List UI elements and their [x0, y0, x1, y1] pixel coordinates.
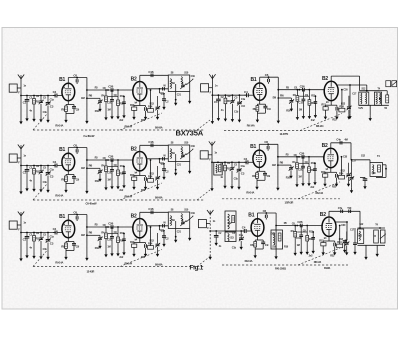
gang dashed line stage 5 — [222, 198, 340, 200]
tube B1 (stage 3) — [62, 220, 75, 237]
wire coupler to lead — [17, 224, 21, 226]
resistor R7 st4 — [296, 89, 299, 115]
wire coupling — [278, 89, 325, 91]
wire B1 anode — [260, 77, 279, 83]
screen network R6 st2 — [87, 168, 103, 176]
capacitor C6 st6 — [265, 213, 267, 220]
label aux3 st2 — [36, 165, 40, 168]
wire coupler to lead — [206, 223, 210, 225]
label aux13 st6 — [339, 238, 344, 241]
wire coupling — [276, 225, 323, 227]
label aux16 st4 — [221, 109, 224, 112]
label R6 — [89, 164, 93, 168]
tube B1 (stage 6) — [251, 219, 264, 236]
resistor R12 st5 — [323, 172, 328, 181]
label aux16 st5 — [220, 176, 223, 179]
label aux19 st6 — [309, 255, 314, 258]
ground C12 — [335, 114, 338, 119]
svg-text:1M: 1M — [299, 108, 302, 111]
label aux16 st1 — [29, 109, 32, 112]
wire cathode join — [257, 113, 265, 117]
label aux24 st1 — [191, 75, 196, 78]
node cpl-a — [275, 225, 277, 227]
label aux18 st3 — [95, 247, 100, 250]
tuning gang dashed line stage 1 — [33, 129, 205, 131]
svg-text:R9·14A: R9·14A — [55, 124, 63, 128]
capacitor C9 st6 — [261, 240, 265, 249]
wire B1 anode — [259, 144, 278, 150]
node cpl-a — [86, 226, 88, 228]
label aux17 st2 — [43, 181, 48, 184]
label aux9 st4 — [293, 94, 297, 97]
label R9 value — [55, 261, 63, 265]
wire antenna lead — [211, 78, 213, 119]
ground R6 — [290, 106, 293, 111]
svg-text:C4: C4 — [244, 157, 248, 161]
ground C2 — [230, 184, 233, 189]
svg-text:R9: R9 — [61, 107, 65, 111]
label R9 — [61, 244, 65, 248]
resistor R10 st5 — [308, 157, 311, 181]
coupler box st6 — [198, 220, 206, 228]
label aux12 st5 — [326, 168, 329, 171]
ground antenna — [19, 119, 22, 124]
label aux11 st2 — [120, 165, 125, 168]
wire B2 anode — [140, 212, 169, 220]
choke Z1 st6 — [358, 229, 364, 244]
capacitor C10 st5 — [301, 157, 305, 181]
label R6 — [280, 93, 284, 97]
ground HT — [274, 254, 277, 259]
label aux23 st3 — [184, 208, 189, 211]
core arrow st2 — [186, 149, 193, 155]
antenna — [209, 141, 215, 145]
label aux1 st6 — [213, 220, 216, 223]
node cpl-b — [299, 89, 301, 91]
label aux7 st5 — [286, 153, 290, 156]
ground C1 — [217, 116, 220, 121]
label R12 — [321, 170, 326, 174]
ground R6 — [98, 244, 101, 249]
wire grid bus — [21, 232, 56, 234]
label C4 — [242, 226, 246, 230]
node cpl-b — [107, 159, 109, 161]
svg-text:R9·14A: R9·14A — [55, 261, 63, 265]
label aux27 st3 — [155, 264, 163, 267]
ground R7 — [294, 251, 297, 256]
tuning gang C3 st3 — [46, 232, 51, 255]
label aux10 st3 — [114, 231, 118, 234]
label aux9 st2 — [101, 164, 105, 167]
label B1 — [248, 213, 254, 219]
label aux5 st1 — [50, 98, 55, 101]
label aux21 st6 — [297, 244, 300, 247]
ground C38 — [363, 184, 366, 189]
ground C11 — [312, 249, 315, 254]
svg-text:C3: C3 — [50, 242, 54, 246]
svg-text:C16: C16 — [148, 140, 153, 144]
svg-text:R9·14A: R9·14A — [247, 123, 255, 127]
label aux1 st4 — [215, 84, 218, 87]
wire R14 feed — [150, 159, 152, 179]
label R9 value — [247, 123, 255, 127]
ground sg — [348, 114, 351, 119]
ground HT — [85, 189, 88, 194]
resistor R1 st2 — [33, 165, 36, 187]
ground R12 — [132, 252, 135, 257]
label aux24 st6 — [341, 224, 346, 227]
svg-text:C10: C10 — [107, 171, 112, 175]
label aux25 st3 — [177, 231, 182, 234]
svg-text:C6: C6 — [263, 209, 267, 213]
ground box tap — [174, 100, 177, 105]
wire grid bus — [212, 161, 247, 163]
ground R10 — [116, 251, 119, 256]
node bus-left — [209, 230, 211, 232]
capacitor C26 st1 — [111, 88, 113, 92]
svg-text:R9·14A: R9·14A — [246, 190, 254, 194]
capacitor C26 st2 — [111, 158, 113, 162]
capacitor C10 st6 — [299, 226, 303, 250]
ground R10 — [307, 181, 310, 186]
tube B1 (stage 5) — [253, 150, 266, 167]
label C9 — [265, 243, 269, 247]
svg-text:B2: B2 — [131, 76, 137, 82]
svg-text:R9: R9 — [61, 244, 65, 248]
wire B1 cathode — [66, 170, 74, 174]
svg-text:C26: C26 — [299, 151, 304, 155]
label aux6 st6 — [252, 222, 255, 225]
label aux3 st5 — [227, 162, 231, 165]
gang diagonal b stage 3 — [120, 250, 162, 267]
ground network a — [364, 255, 367, 260]
resistor R12 st4 — [323, 105, 328, 114]
capacitor C1 st4 — [216, 94, 221, 115]
gang diagonal a stage 1 — [33, 114, 47, 130]
trimmer C14 st6 — [344, 232, 349, 251]
resistor R9 st6 — [254, 240, 257, 249]
label aux24 st2 — [191, 145, 196, 148]
label aux8 st1 — [103, 87, 107, 90]
wire sec down — [369, 105, 371, 115]
label aux0 st3 — [18, 229, 20, 232]
wire antenna lead — [20, 78, 22, 119]
svg-text:R6: R6 — [280, 93, 284, 97]
wire coupler to lead — [17, 157, 21, 159]
label aux6 st4 — [254, 86, 257, 89]
svg-text:S3: S3 — [230, 236, 234, 240]
capacitor C12 st2 — [145, 176, 147, 185]
svg-text:B6·06A: B6·06A — [155, 264, 163, 267]
label C3 — [50, 175, 54, 179]
capacitor C6 st2 — [76, 148, 78, 155]
capacitor C1 st1 — [25, 95, 30, 116]
label aux4 st4 — [234, 96, 238, 99]
label aux21 st2 — [107, 179, 110, 182]
label C4 — [53, 227, 57, 231]
label aux18 st5 — [286, 177, 291, 180]
wire HT rail — [277, 77, 279, 118]
caption stage4 — [280, 132, 290, 136]
ground C3 — [46, 188, 49, 193]
node screen — [86, 167, 88, 169]
wire B1 cathode — [66, 237, 74, 241]
label aux8 st3 — [103, 224, 107, 227]
wire sg rail — [349, 84, 351, 114]
svg-text:R9: R9 — [253, 107, 257, 111]
svg-text:S2: S2 — [228, 221, 232, 225]
label aux6 st2 — [63, 156, 66, 159]
svg-text:1M: 1M — [298, 175, 301, 178]
wire cathode join — [66, 114, 74, 118]
wire grid bus — [212, 94, 247, 96]
label aux12 st3 — [135, 238, 138, 241]
svg-text:R9: R9 — [252, 174, 256, 178]
node bus-left — [20, 232, 22, 234]
label aux0 st1 — [18, 92, 20, 95]
resistor R14 st1 — [148, 105, 154, 113]
label aux20 st2 — [141, 189, 146, 192]
resistor R7 st6 — [294, 225, 297, 251]
label aux18 st4 — [286, 110, 291, 113]
wire coupling — [278, 156, 325, 158]
resistor R40 st6 — [374, 230, 379, 243]
capacitor C6 st4 — [268, 77, 270, 84]
label aux21 st3 — [107, 246, 110, 249]
ground C12 — [333, 250, 336, 255]
ground cathode — [64, 188, 67, 193]
ground C12 — [144, 252, 147, 257]
node cpl-c — [117, 226, 119, 228]
capacitor C1 st6 — [214, 230, 219, 240]
tube B2 (stage 4) — [324, 81, 338, 100]
wire det in — [351, 160, 370, 163]
label aux15 st4 — [273, 97, 276, 100]
tube B2 (stage 6) — [322, 217, 336, 236]
caption stage2 — [86, 202, 98, 206]
capacitor C4 st6 — [242, 229, 251, 233]
wire box tap — [175, 84, 177, 100]
capacitor C26 st4 — [303, 88, 305, 92]
wire level2 — [108, 166, 118, 168]
label R9 — [252, 174, 256, 178]
label aux5 st3 — [50, 235, 55, 238]
trimmer C14 st2 — [155, 166, 160, 185]
capacitor C20 st3 — [160, 226, 167, 242]
label R10 — [311, 168, 316, 172]
label C6 — [73, 143, 77, 147]
wire coupler to lead — [17, 87, 21, 89]
wire antenna lead — [20, 215, 22, 256]
label group — [125, 124, 133, 128]
label R9 value — [55, 194, 63, 198]
tuning gang dashed line stage 2 — [33, 199, 205, 201]
capacitor C10 st3 — [110, 227, 114, 251]
svg-text:C26: C26 — [108, 155, 113, 159]
label C26 — [108, 85, 113, 89]
label aux14 st6 — [350, 228, 355, 231]
ground C3 — [237, 184, 240, 189]
label aux12 st4 — [326, 101, 329, 104]
svg-text:R1: R1 — [36, 100, 40, 104]
label aux11 st1 — [120, 95, 125, 98]
svg-text:C9: C9 — [267, 174, 271, 178]
svg-text:C3: C3 — [241, 104, 245, 108]
wire B1 cathode — [255, 236, 263, 240]
label aux9 st1 — [101, 94, 105, 97]
label group — [125, 194, 133, 198]
wire B2 aux — [336, 221, 348, 240]
node bus-left — [20, 95, 22, 97]
label R9 value — [246, 190, 254, 194]
label aux21 st1 — [107, 109, 110, 112]
resistor R12 st1 — [132, 106, 137, 115]
resistor R10 st4 — [308, 90, 311, 114]
label R9 value — [55, 124, 63, 128]
tuning gang dashed line stage 3 — [33, 266, 205, 268]
label aux7 st1 — [95, 87, 99, 90]
node cpl-a — [86, 159, 88, 161]
node bus-left — [211, 161, 213, 163]
label C20 — [165, 170, 169, 174]
label aux2 st6 — [218, 232, 222, 235]
caption stage6 — [275, 267, 287, 271]
svg-text:R9: R9 — [250, 243, 254, 247]
ground C10 — [301, 181, 304, 186]
label aux21 st4 — [299, 108, 302, 111]
wire level2 — [299, 162, 309, 164]
svg-text:EM: EM — [81, 234, 84, 237]
svg-text:Fig.1: Fig.1 — [190, 265, 204, 272]
svg-text:C3: C3 — [50, 105, 54, 109]
wire box right — [189, 92, 191, 99]
svg-text:C1b: C1b — [43, 111, 48, 114]
output network rails st6 — [358, 227, 386, 245]
svg-text:C1b: C1b — [43, 248, 48, 251]
label aux12 st1 — [135, 101, 138, 104]
label aux9 st3 — [101, 231, 105, 234]
label aux20 st5 — [332, 186, 337, 189]
label aux1 st2 — [23, 155, 26, 158]
osc coupler box st5 — [214, 161, 222, 175]
label aux13 st1 — [150, 103, 155, 106]
node cpl-c — [309, 89, 311, 91]
ground R12 — [324, 114, 327, 119]
label aux1 st3 — [23, 222, 26, 225]
wire R14 feed — [150, 89, 152, 109]
ground C10 — [110, 184, 113, 189]
capacitor C4 st2 — [53, 164, 62, 168]
ground HT — [85, 119, 88, 124]
label aux11 st6 — [309, 231, 314, 234]
label group — [125, 261, 133, 265]
capacitor C12 st1 — [145, 106, 147, 115]
label R6 — [280, 160, 284, 164]
trimmer arrow box — [180, 83, 187, 89]
resistor R14 st3 — [148, 242, 154, 250]
wire network down — [366, 245, 377, 254]
capacitor C10 st4 — [302, 90, 306, 114]
tube B2 (stage 2) — [133, 152, 147, 171]
label R30 — [384, 106, 387, 110]
ground C14 — [345, 250, 348, 255]
gang diagonal a stage 3 — [33, 251, 47, 267]
label aux17 st4 — [234, 111, 239, 114]
ground R6 — [98, 107, 101, 112]
svg-text:1/3R·2R: 1/3R·2R — [285, 201, 294, 205]
ground C14 — [156, 115, 159, 120]
capacitor C16 st1 — [151, 74, 153, 78]
ground C10 — [302, 114, 305, 119]
gang diagonal stage 4 — [300, 114, 342, 131]
tuning gang C3 st1 — [46, 95, 51, 118]
ground C2 — [39, 187, 42, 192]
label aux19 st3 — [119, 256, 124, 259]
label C10 — [107, 238, 112, 242]
label aux20 st4 — [332, 119, 337, 122]
label aux5 st6 — [239, 234, 244, 237]
ground R10 — [308, 114, 311, 119]
resistor R9 st3 — [65, 242, 68, 251]
label aux16 st3 — [29, 246, 32, 249]
ground R7 — [104, 185, 107, 190]
wire B2 aux — [146, 158, 168, 160]
svg-text:C9: C9 — [265, 243, 269, 247]
capacitor C20 st1 — [160, 89, 167, 105]
label aux14 st4 — [352, 93, 357, 96]
trimmer C14 st4 — [347, 96, 352, 115]
antenna — [18, 212, 24, 216]
svg-text:C1b: C1b — [234, 178, 239, 181]
label C4 — [244, 90, 248, 94]
resistor R1 st4 — [224, 94, 227, 116]
node box tap — [175, 169, 177, 171]
node cpl-c — [308, 156, 310, 158]
core arrow st3 — [186, 216, 193, 222]
node anode-top — [76, 77, 78, 79]
label aux16 st2 — [29, 179, 32, 182]
label aux10 st2 — [114, 164, 118, 167]
wire cathode join — [66, 251, 74, 255]
label C3 — [241, 104, 245, 108]
ground cathode — [64, 118, 67, 123]
label B2 — [322, 143, 328, 149]
tube B1 (stage 1) — [62, 83, 75, 100]
capacitor C1 st3 — [25, 232, 30, 253]
label aux25 st1 — [177, 94, 182, 97]
ground antenna — [19, 189, 22, 194]
ground C12 — [144, 115, 147, 120]
label aux14 st3 — [161, 230, 166, 233]
ground C3 — [46, 255, 49, 260]
ground R1 — [32, 117, 35, 122]
label aux23 st1 — [184, 71, 189, 74]
label aux4 st5 — [234, 163, 238, 166]
label C26 — [297, 220, 302, 224]
label aux18 st6 — [284, 245, 289, 248]
svg-text:C16: C16 — [148, 207, 153, 211]
resistor R12 st6 — [321, 241, 326, 250]
label aux17 st3 — [43, 248, 48, 251]
svg-text:R6: R6 — [280, 160, 284, 164]
tuning gang C3 st4 — [237, 94, 242, 117]
svg-text:C26: C26 — [297, 220, 302, 224]
wire B2 cathode — [323, 235, 335, 241]
node cpl-b — [298, 156, 300, 158]
resistor R10 st2 — [117, 160, 120, 184]
ground C11 — [313, 180, 316, 185]
label group — [316, 191, 324, 195]
